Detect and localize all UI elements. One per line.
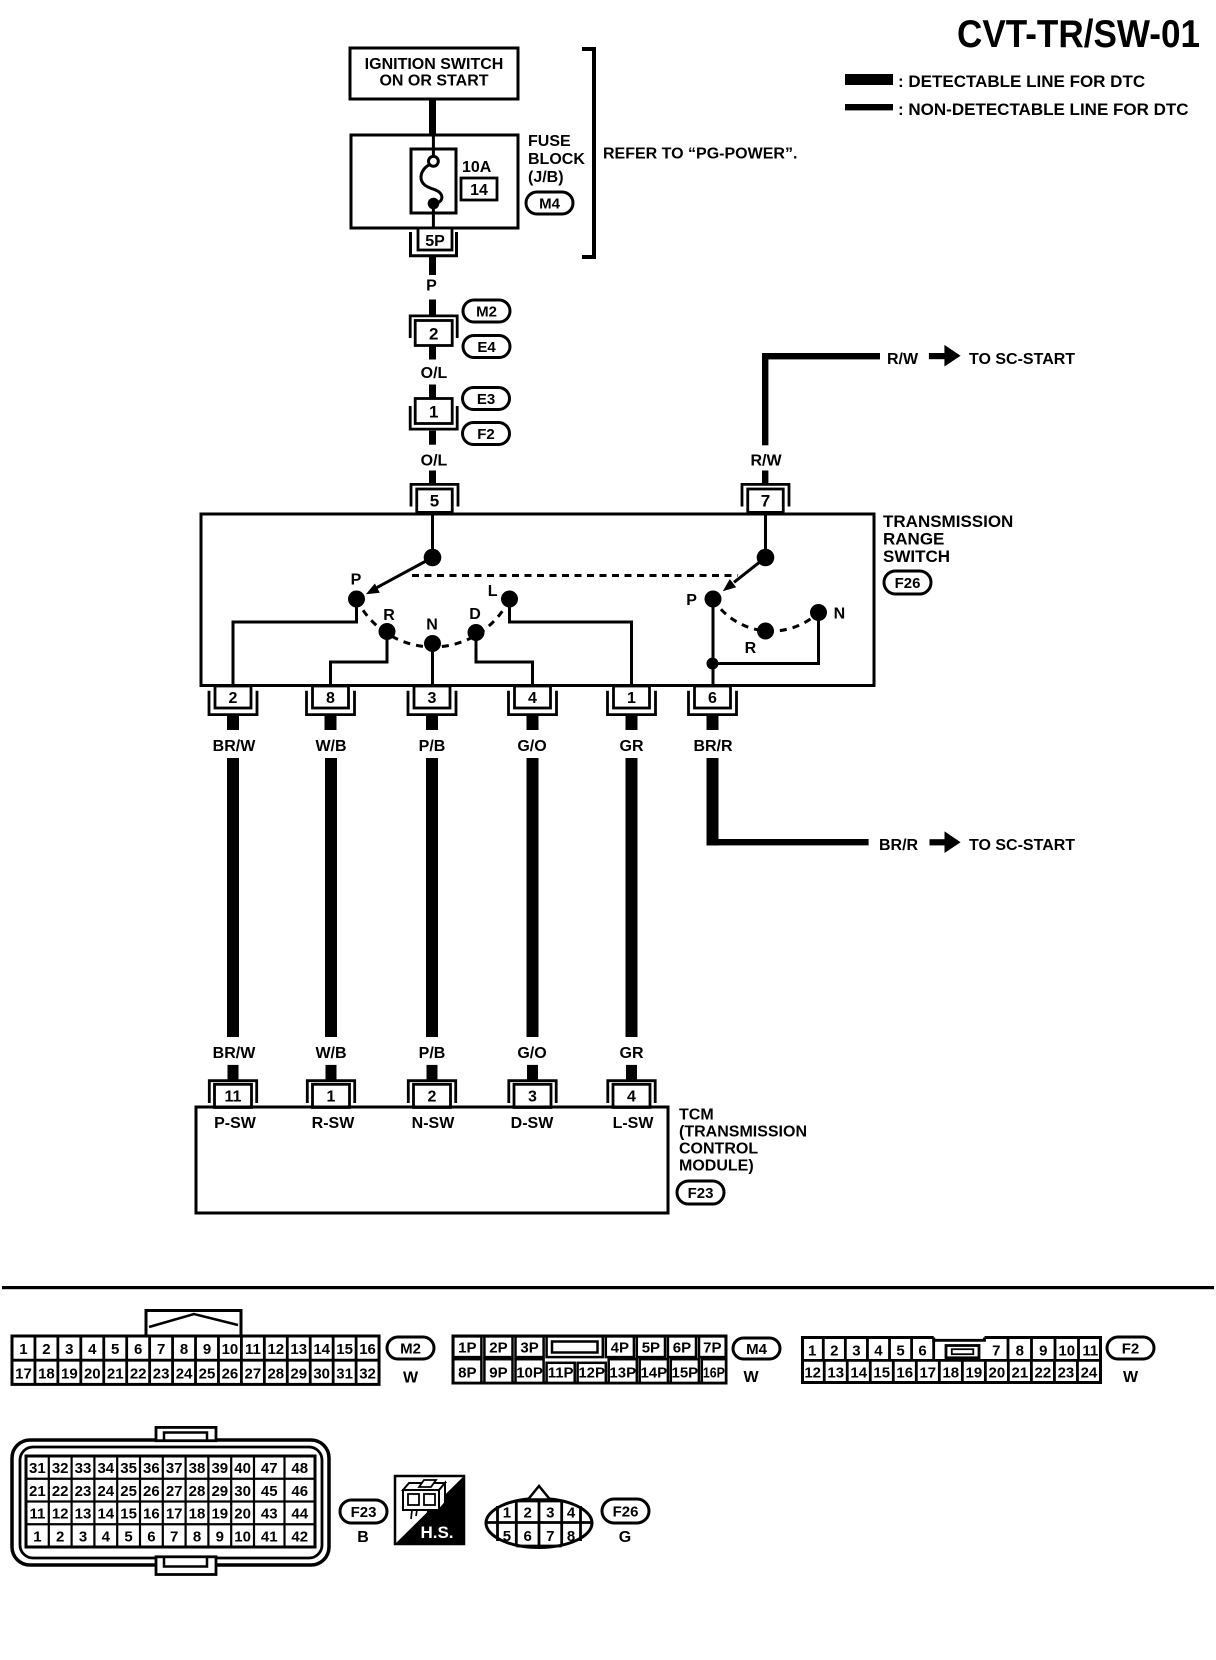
svg-text:7: 7 xyxy=(170,1528,178,1545)
svg-text:28: 28 xyxy=(267,1365,284,1382)
label TRANSMISSION RANGE SWITCH xyxy=(883,512,1013,566)
svg-text:W/B: W/B xyxy=(315,1045,346,1062)
svg-text:4P: 4P xyxy=(611,1339,629,1356)
label 14 box xyxy=(461,178,497,200)
svg-text:R/W: R/W xyxy=(887,351,919,368)
svg-text:4: 4 xyxy=(102,1528,111,1545)
svg-text:(TRANSMISSION: (TRANSMISSION xyxy=(679,1124,807,1141)
svg-text:O/L: O/L xyxy=(421,365,448,382)
svg-text:P: P xyxy=(351,571,362,588)
connector label F23 bottom xyxy=(340,1500,387,1523)
svg-text:W: W xyxy=(403,1370,419,1387)
svg-text:19: 19 xyxy=(61,1365,78,1382)
wire ignition to fuse block xyxy=(429,98,436,136)
left selector arrow to P xyxy=(363,558,432,599)
svg-text:30: 30 xyxy=(234,1483,251,1500)
svg-text:4: 4 xyxy=(874,1343,883,1360)
connector 5P xyxy=(411,228,457,256)
svg-text:L: L xyxy=(488,583,498,600)
svg-text:MODULE): MODULE) xyxy=(679,1158,754,1175)
svg-text:27: 27 xyxy=(166,1483,183,1500)
svg-text:M2: M2 xyxy=(476,304,497,321)
svg-text:31: 31 xyxy=(29,1460,46,1477)
svg-text:N-SW: N-SW xyxy=(412,1115,456,1132)
svg-text:16: 16 xyxy=(896,1365,913,1382)
svg-text:W: W xyxy=(1123,1369,1139,1386)
svg-text:: NON-DETECTABLE LINE FOR DTC: : NON-DETECTABLE LINE FOR DTC xyxy=(898,100,1189,119)
svg-text:6P: 6P xyxy=(673,1339,691,1356)
svg-text:18: 18 xyxy=(942,1365,959,1382)
svg-text:17: 17 xyxy=(919,1365,936,1382)
svg-text:24: 24 xyxy=(97,1483,114,1500)
arrow to SC-START bottom xyxy=(930,831,961,853)
svg-text:R-SW: R-SW xyxy=(312,1115,356,1132)
wire stub above TCM pin xyxy=(228,1065,239,1080)
svg-text:14: 14 xyxy=(313,1341,330,1358)
svg-text:R/W: R/W xyxy=(750,453,782,470)
svg-text:47: 47 xyxy=(261,1460,278,1477)
svg-text:BR/W: BR/W xyxy=(213,738,257,755)
svg-text:R: R xyxy=(745,640,757,657)
svg-text:F23: F23 xyxy=(351,1504,377,1521)
svg-text:8: 8 xyxy=(326,690,335,707)
TCM box F23 xyxy=(196,1107,668,1213)
connector face M4 xyxy=(453,1336,726,1383)
svg-text:10P: 10P xyxy=(516,1365,543,1382)
svg-text:11: 11 xyxy=(1082,1343,1098,1360)
connector pin 7 of F26 xyxy=(742,484,789,512)
svg-text:24: 24 xyxy=(1081,1365,1098,1382)
svg-text:14: 14 xyxy=(470,182,488,199)
svg-text:8: 8 xyxy=(567,1528,575,1545)
svg-text:17: 17 xyxy=(15,1365,32,1382)
connector label M2 bottom xyxy=(387,1337,434,1359)
svg-text:42: 42 xyxy=(291,1528,308,1545)
contact L left xyxy=(501,591,518,608)
wire P right to pin 6 xyxy=(712,607,715,686)
svg-text:22: 22 xyxy=(52,1483,69,1500)
connector pin 2 of F26 bottom xyxy=(209,686,257,715)
right pivot node xyxy=(757,549,775,567)
connector pin 2 of F23 xyxy=(408,1081,455,1108)
svg-text:14: 14 xyxy=(97,1506,114,1523)
svg-text:37: 37 xyxy=(166,1460,183,1477)
svg-text:43: 43 xyxy=(261,1506,278,1523)
svg-text:4: 4 xyxy=(88,1341,97,1358)
svg-text:5: 5 xyxy=(111,1341,119,1358)
svg-text:16: 16 xyxy=(143,1506,160,1523)
svg-text:13: 13 xyxy=(290,1341,307,1358)
connector pin 4 of F23 xyxy=(608,1081,655,1108)
svg-text:P/B: P/B xyxy=(419,1045,446,1062)
svg-text:: DETECTABLE LINE FOR DTC: : DETECTABLE LINE FOR DTC xyxy=(898,72,1145,91)
svg-text:10: 10 xyxy=(1058,1343,1075,1360)
svg-text:26: 26 xyxy=(143,1483,160,1500)
connector pin 3 of F23 xyxy=(509,1081,556,1108)
svg-text:14: 14 xyxy=(850,1365,867,1382)
svg-text:24: 24 xyxy=(176,1365,193,1382)
svg-text:28: 28 xyxy=(189,1483,206,1500)
svg-text:13P: 13P xyxy=(609,1365,636,1382)
svg-text:13: 13 xyxy=(75,1506,92,1523)
connector label F23 xyxy=(677,1181,724,1204)
wire stub below pin 4 xyxy=(527,715,539,731)
dashed link between selectors xyxy=(412,574,738,577)
svg-text:8P: 8P xyxy=(458,1365,476,1382)
svg-text:19: 19 xyxy=(965,1365,982,1382)
wire stub below connector 1 xyxy=(429,431,436,445)
connector pin 2 M2-E4 xyxy=(410,316,457,346)
svg-text:8: 8 xyxy=(180,1341,188,1358)
svg-text:1: 1 xyxy=(33,1528,41,1545)
svg-text:12P: 12P xyxy=(578,1365,605,1382)
svg-text:13: 13 xyxy=(827,1365,844,1382)
svg-text:2: 2 xyxy=(229,690,238,707)
svg-text:2P: 2P xyxy=(489,1339,507,1356)
wire R to pin 8 xyxy=(331,639,388,686)
svg-text:GR: GR xyxy=(620,738,644,755)
svg-text:11: 11 xyxy=(29,1506,45,1523)
svg-text:15: 15 xyxy=(873,1365,890,1382)
svg-text:TCM: TCM xyxy=(679,1107,714,1124)
connector face F23 xyxy=(12,1427,329,1574)
svg-text:TO SC-START: TO SC-START xyxy=(969,837,1075,854)
wire L to pin 1 xyxy=(510,607,632,686)
fuse F 10A 14 xyxy=(411,136,456,228)
connector pin 3 of F26 bottom xyxy=(408,686,456,715)
connector label M2 xyxy=(463,300,510,322)
svg-text:REFER TO “PG-POWER”.: REFER TO “PG-POWER”. xyxy=(603,146,797,163)
svg-text:40: 40 xyxy=(234,1460,251,1477)
wire stub below connector 2 xyxy=(429,346,436,360)
svg-text:O/L: O/L xyxy=(421,453,448,470)
svg-text:BR/W: BR/W xyxy=(213,1045,257,1062)
svg-text:6: 6 xyxy=(708,690,717,707)
connector pin 1 of F23 xyxy=(307,1081,354,1108)
wire to TCM xyxy=(426,758,438,1037)
contact R right xyxy=(757,623,774,640)
svg-text:2: 2 xyxy=(830,1343,838,1360)
contact R left xyxy=(379,623,396,640)
svg-text:5: 5 xyxy=(896,1343,904,1360)
svg-text:(J/B): (J/B) xyxy=(528,169,564,186)
svg-text:6: 6 xyxy=(523,1528,531,1545)
wire to TCM xyxy=(527,758,539,1037)
H.S. hand symbol xyxy=(395,1476,464,1544)
svg-text:11: 11 xyxy=(225,1089,242,1106)
legend detectable line xyxy=(845,72,1145,91)
svg-text:18: 18 xyxy=(38,1365,55,1382)
contact N left xyxy=(424,635,441,652)
svg-text:5P: 5P xyxy=(425,233,445,250)
svg-text:9: 9 xyxy=(203,1341,211,1358)
svg-text:2: 2 xyxy=(429,325,438,344)
svg-text:46: 46 xyxy=(291,1483,308,1500)
svg-text:FUSE: FUSE xyxy=(528,133,571,150)
connector label E4 xyxy=(463,336,510,358)
connector pin 1 E3-F2 xyxy=(410,399,457,430)
svg-text:6: 6 xyxy=(134,1341,142,1358)
svg-text:7: 7 xyxy=(992,1343,1000,1360)
svg-text:31: 31 xyxy=(336,1365,353,1382)
svg-text:21: 21 xyxy=(107,1365,124,1382)
svg-text:3: 3 xyxy=(528,1089,537,1106)
svg-text:G: G xyxy=(619,1529,631,1546)
svg-text:48: 48 xyxy=(291,1460,308,1477)
connector pin 11 of F23 xyxy=(209,1081,256,1108)
svg-text:2: 2 xyxy=(56,1528,64,1545)
svg-text:BR/R: BR/R xyxy=(693,738,733,755)
wire R/W branch xyxy=(762,353,880,445)
svg-text:E4: E4 xyxy=(477,339,496,356)
wire stub below 5P xyxy=(429,256,436,275)
svg-text:D-SW: D-SW xyxy=(511,1115,555,1132)
svg-text:CONTROL: CONTROL xyxy=(679,1141,758,1158)
connector pin 6 of F26 bottom xyxy=(689,686,737,715)
svg-text:1: 1 xyxy=(429,403,438,422)
wire pin7 to right pivot xyxy=(764,514,767,558)
contact D left xyxy=(468,624,485,641)
svg-text:BR/R: BR/R xyxy=(879,837,919,854)
svg-text:36: 36 xyxy=(143,1460,160,1477)
svg-text:M4: M4 xyxy=(746,1341,767,1358)
svg-text:TO SC-START: TO SC-START xyxy=(969,351,1075,368)
svg-text:21: 21 xyxy=(29,1483,46,1500)
svg-text:29: 29 xyxy=(290,1365,307,1382)
svg-text:B: B xyxy=(357,1529,369,1546)
svg-text:N: N xyxy=(834,606,846,623)
svg-text:F23: F23 xyxy=(688,1185,714,1202)
svg-text:15: 15 xyxy=(120,1506,137,1523)
connector label E3 xyxy=(463,388,510,410)
svg-text:5: 5 xyxy=(503,1528,511,1545)
svg-text:CVT-TR/SW-01: CVT-TR/SW-01 xyxy=(957,13,1200,56)
svg-text:3: 3 xyxy=(428,690,437,707)
wire stub below pin 3 xyxy=(426,715,438,731)
svg-text:7P: 7P xyxy=(703,1339,721,1356)
svg-text:22: 22 xyxy=(130,1365,147,1382)
svg-text:8: 8 xyxy=(193,1528,201,1545)
svg-text:1P: 1P xyxy=(458,1339,476,1356)
wire stub above TCM pin xyxy=(326,1065,337,1080)
svg-text:30: 30 xyxy=(313,1365,330,1382)
svg-text:P/B: P/B xyxy=(419,738,446,755)
svg-text:16P: 16P xyxy=(703,1365,725,1382)
svg-text:TRANSMISSION: TRANSMISSION xyxy=(883,512,1013,531)
wire to TCM xyxy=(227,758,239,1037)
svg-text:11: 11 xyxy=(245,1341,261,1358)
connector pin 1 of F26 bottom xyxy=(608,686,656,715)
svg-text:12: 12 xyxy=(52,1506,69,1523)
wire P to connector 2 xyxy=(429,300,436,316)
wire to TCM xyxy=(626,758,638,1037)
junction node xyxy=(707,658,719,670)
connector face M2 xyxy=(12,1311,379,1385)
wire stub above pin 7 xyxy=(762,471,768,485)
svg-text:5: 5 xyxy=(430,491,439,510)
label FUSE BLOCK (J/B) xyxy=(528,133,585,186)
wire BR/R to branch corner xyxy=(707,758,869,845)
connector pin 4 of F26 bottom xyxy=(509,686,557,715)
svg-text:5: 5 xyxy=(124,1528,132,1545)
separator line xyxy=(2,1286,1214,1289)
wire stub below pin 8 xyxy=(325,715,337,731)
connector pin 5 of F26 xyxy=(411,484,458,512)
svg-text:25: 25 xyxy=(199,1365,216,1382)
svg-text:33: 33 xyxy=(75,1460,92,1477)
svg-text:F2: F2 xyxy=(1122,1341,1140,1358)
wire P to pin 2 xyxy=(233,607,357,686)
fuse block M4 box xyxy=(351,135,518,228)
wire stub below pin 2 xyxy=(227,715,239,731)
svg-text:41: 41 xyxy=(261,1528,278,1545)
svg-text:16: 16 xyxy=(359,1341,376,1358)
wire stub below pin 6 xyxy=(707,715,719,731)
svg-text:ON OR START: ON OR START xyxy=(379,73,488,90)
connector face F26 xyxy=(486,1486,592,1548)
connector pin 8 of F26 bottom xyxy=(307,686,355,715)
connector label M4 bottom xyxy=(733,1338,780,1359)
svg-text:44: 44 xyxy=(291,1506,308,1523)
legend non-detectable line xyxy=(845,100,1189,119)
svg-text:IGNITION SWITCH: IGNITION SWITCH xyxy=(365,56,504,73)
svg-text:22: 22 xyxy=(1035,1365,1052,1382)
svg-text:3: 3 xyxy=(79,1528,87,1545)
wire D to pin 4 xyxy=(476,640,533,686)
svg-text:23: 23 xyxy=(1058,1365,1075,1382)
svg-text:F2: F2 xyxy=(477,426,495,443)
svg-text:38: 38 xyxy=(189,1460,206,1477)
svg-text:L-SW: L-SW xyxy=(613,1115,655,1132)
svg-text:20: 20 xyxy=(989,1365,1006,1382)
connector label F2 bottom xyxy=(1107,1337,1154,1359)
left dashed arc P-R-N-D-L xyxy=(357,599,510,647)
svg-text:9: 9 xyxy=(216,1528,224,1545)
wire to TCM xyxy=(325,758,337,1037)
svg-text:G/O: G/O xyxy=(517,1045,546,1062)
connector label F2 xyxy=(463,423,510,445)
svg-text:4: 4 xyxy=(627,1089,636,1106)
svg-text:1: 1 xyxy=(503,1505,511,1522)
svg-text:W/B: W/B xyxy=(315,738,346,755)
svg-text:2: 2 xyxy=(428,1089,437,1106)
svg-text:45: 45 xyxy=(261,1483,278,1500)
svg-text:GR: GR xyxy=(620,1045,644,1062)
svg-text:1: 1 xyxy=(627,690,636,707)
svg-text:3: 3 xyxy=(546,1505,554,1522)
svg-text:7: 7 xyxy=(546,1528,554,1545)
svg-text:6: 6 xyxy=(147,1528,155,1545)
svg-text:10: 10 xyxy=(222,1341,239,1358)
svg-text:5P: 5P xyxy=(642,1339,660,1356)
svg-text:6: 6 xyxy=(918,1343,926,1360)
svg-text:2: 2 xyxy=(42,1341,50,1358)
svg-text:18: 18 xyxy=(189,1506,206,1523)
svg-text:19: 19 xyxy=(211,1506,228,1523)
svg-text:14P: 14P xyxy=(640,1365,667,1382)
connector label F26 xyxy=(884,571,931,594)
svg-text:1: 1 xyxy=(808,1343,816,1360)
svg-text:8: 8 xyxy=(1016,1343,1024,1360)
connector face F2 xyxy=(801,1338,1100,1383)
svg-text:9: 9 xyxy=(1039,1343,1047,1360)
svg-text:20: 20 xyxy=(84,1365,101,1382)
svg-text:15: 15 xyxy=(336,1341,353,1358)
svg-text:29: 29 xyxy=(211,1483,228,1500)
wire O/L to pin 5 xyxy=(429,471,436,485)
svg-text:SWITCH: SWITCH xyxy=(883,547,950,566)
svg-text:E3: E3 xyxy=(477,391,495,408)
svg-text:12: 12 xyxy=(804,1365,821,1382)
svg-text:26: 26 xyxy=(222,1365,239,1382)
svg-text:P: P xyxy=(426,278,437,295)
contact P left xyxy=(348,591,365,608)
svg-text:9P: 9P xyxy=(489,1365,507,1382)
svg-text:15P: 15P xyxy=(671,1365,698,1382)
svg-text:4: 4 xyxy=(528,690,537,707)
left pivot node xyxy=(424,549,442,567)
connector label M4 xyxy=(526,192,573,214)
svg-text:23: 23 xyxy=(75,1483,92,1500)
wire pin5 to left pivot xyxy=(431,514,434,558)
svg-text:12: 12 xyxy=(267,1341,284,1358)
wire O/L to connector 1 xyxy=(429,385,436,400)
contact N right xyxy=(810,604,827,621)
right selector arrow to P xyxy=(720,558,766,596)
svg-text:10: 10 xyxy=(234,1528,251,1545)
wire N to pin 3 xyxy=(431,651,434,686)
wire N right to junction xyxy=(713,620,819,664)
svg-text:M2: M2 xyxy=(400,1341,421,1358)
bracket refer xyxy=(582,49,594,257)
svg-text:39: 39 xyxy=(211,1460,228,1477)
svg-text:32: 32 xyxy=(52,1460,69,1477)
svg-text:W: W xyxy=(743,1369,759,1386)
ignition switch box xyxy=(350,48,518,99)
wire stub above TCM pin xyxy=(427,1065,438,1080)
svg-text:7: 7 xyxy=(157,1341,165,1358)
svg-text:11P: 11P xyxy=(548,1365,574,1382)
svg-text:P: P xyxy=(686,592,697,609)
svg-text:F26: F26 xyxy=(613,1504,639,1521)
label TCM (TRANSMISSION CONTROL MODULE) xyxy=(679,1107,807,1175)
svg-text:21: 21 xyxy=(1012,1365,1029,1382)
svg-text:2: 2 xyxy=(523,1505,531,1522)
svg-text:34: 34 xyxy=(97,1460,114,1477)
wire stub above TCM pin xyxy=(626,1065,637,1080)
svg-text:BLOCK: BLOCK xyxy=(528,151,585,168)
wire stub below pin 1 xyxy=(626,715,638,731)
svg-text:F26: F26 xyxy=(895,575,921,592)
svg-text:M4: M4 xyxy=(539,196,560,213)
svg-text:P-SW: P-SW xyxy=(214,1115,257,1132)
svg-text:20: 20 xyxy=(234,1506,251,1523)
svg-text:R: R xyxy=(383,607,395,624)
svg-text:G/O: G/O xyxy=(517,738,546,755)
svg-text:7: 7 xyxy=(761,491,770,510)
svg-text:10A: 10A xyxy=(462,159,492,176)
svg-text:N: N xyxy=(426,617,438,634)
svg-text:H.S.: H.S. xyxy=(420,1523,453,1542)
arrow to SC-START top xyxy=(929,345,961,367)
svg-text:25: 25 xyxy=(120,1483,137,1500)
contact P right xyxy=(705,591,722,608)
svg-text:4: 4 xyxy=(567,1505,576,1522)
connector label F26 bottom xyxy=(602,1499,649,1523)
svg-text:1: 1 xyxy=(327,1089,336,1106)
svg-text:23: 23 xyxy=(153,1365,170,1382)
svg-text:3P: 3P xyxy=(520,1339,538,1356)
